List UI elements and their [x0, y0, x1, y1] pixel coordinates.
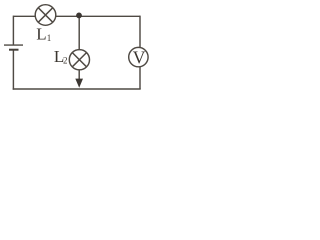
battery B1 short plate	[9, 49, 19, 51]
arrowhead (current direction into bottom wire)	[75, 79, 83, 88]
svg-text:V: V	[133, 47, 146, 67]
lamp L1	[35, 5, 56, 26]
wire top-left (battery to lamp L1)	[13, 15, 35, 17]
wire middle branch (junction to lamp L2)	[78, 16, 80, 50]
lamp L2	[69, 50, 89, 70]
label L2	[54, 47, 68, 66]
svg-text:1: 1	[47, 33, 52, 43]
wire left upper (top-left corner to battery)	[12, 16, 14, 45]
junction node	[76, 13, 82, 19]
wire top (lamp L1 to top-right corner)	[56, 15, 140, 17]
wire right upper (corner to voltmeter)	[139, 16, 141, 48]
wire left lower (battery to bottom-left corner)	[12, 50, 14, 90]
wire right lower (voltmeter to bottom-right corner)	[139, 67, 141, 89]
svg-text:L: L	[36, 25, 46, 44]
voltmeter U1	[129, 47, 148, 66]
svg-text:2: 2	[63, 55, 68, 65]
battery B1 long plate	[4, 44, 23, 46]
wire bottom	[13, 88, 141, 90]
wire middle lower (lamp L2 to arrow)	[78, 70, 80, 81]
label L1	[36, 25, 51, 44]
